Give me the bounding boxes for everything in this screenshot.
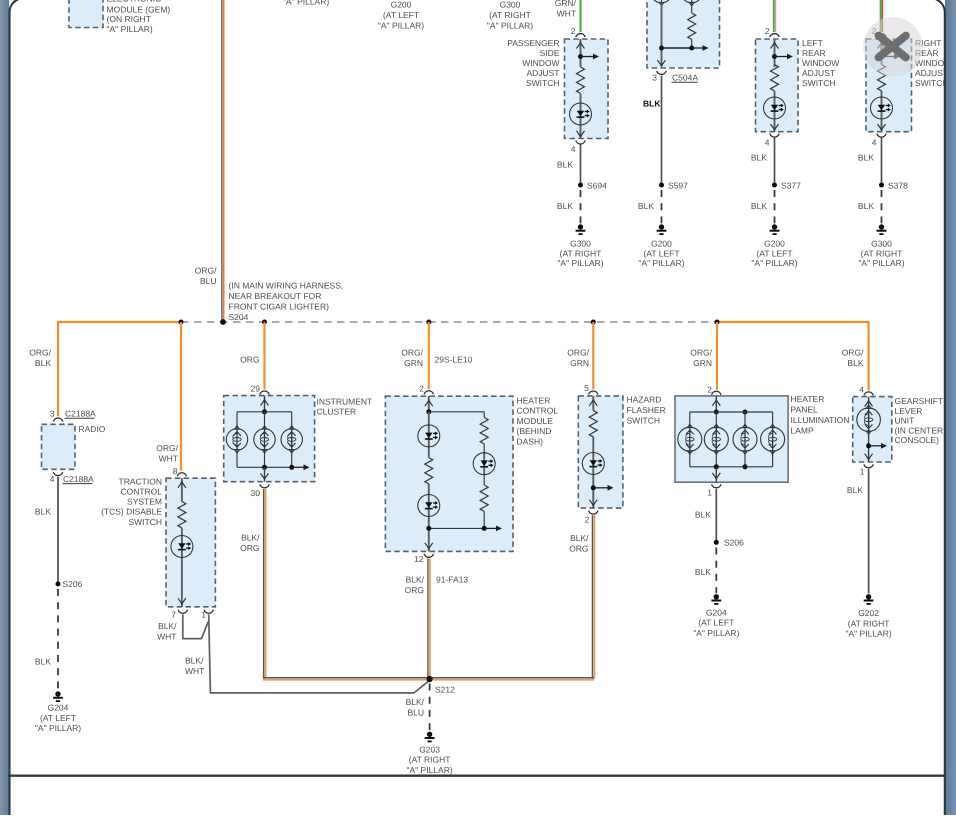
svg-text:91-FA13: 91-FA13 xyxy=(436,575,468,585)
resistor in heater module left xyxy=(425,458,433,484)
svg-text:WINDOW: WINDOW xyxy=(802,58,839,68)
svg-text:CONTROL: CONTROL xyxy=(517,406,559,416)
connector arc TCS pin 8 xyxy=(177,473,186,477)
cluster internal wire bottom xyxy=(264,467,266,481)
connector arc panel lamp pin 1 xyxy=(712,484,721,488)
svg-text:ORG: ORG xyxy=(240,543,259,553)
svg-text:(AT RIGHT: (AT RIGHT xyxy=(848,618,890,628)
panel lamp arrow down xyxy=(712,473,720,479)
svg-text:BLK: BLK xyxy=(858,152,874,162)
wire BLK dashed to ground xyxy=(57,589,59,691)
svg-text:TRACTION: TRACTION xyxy=(119,476,162,486)
connector arc heater pin 12 xyxy=(424,554,433,558)
panel lamp branch wires xyxy=(690,412,773,467)
connector arc TCS pin 1 xyxy=(204,610,213,614)
svg-text:ORG/: ORG/ xyxy=(156,443,178,453)
svg-text:DASH): DASH) xyxy=(517,437,544,447)
svg-text:CLUSTER: CLUSTER xyxy=(317,406,357,416)
wire BLK/WHT from TCS pin 1 to S212 xyxy=(209,614,430,693)
wire BLK/ORG from hazard to S212 xyxy=(592,515,594,678)
LED in hazard switch xyxy=(582,453,604,475)
svg-text:ORG/: ORG/ xyxy=(401,347,423,357)
module branch wire xyxy=(691,2,693,13)
svg-text:30: 30 xyxy=(251,488,261,498)
TCS internal wire xyxy=(181,478,183,607)
svg-text:S377: S377 xyxy=(781,180,801,190)
passenger switch internal wire xyxy=(580,39,582,139)
gearshift lever unit box xyxy=(853,397,892,462)
connector arc radio pin 3 xyxy=(53,418,62,422)
hazard internal wire xyxy=(592,396,594,508)
right rear switch node xyxy=(879,54,884,59)
svg-text:4: 4 xyxy=(50,474,55,484)
connector arc cluster pin 30 xyxy=(260,484,269,488)
svg-text:WHT: WHT xyxy=(159,453,178,463)
svg-text:"A" PILLAR): "A" PILLAR) xyxy=(35,723,81,733)
svg-text:"A" PILLAR): "A" PILLAR) xyxy=(283,0,329,7)
svg-text:ORG/: ORG/ xyxy=(195,265,217,275)
svg-text:MODULE: MODULE xyxy=(517,416,554,426)
ground G300 xyxy=(576,224,586,234)
svg-text:G300: G300 xyxy=(500,0,521,10)
svg-text:ORG: ORG xyxy=(240,355,259,365)
panel lamp node top 2 xyxy=(743,410,748,415)
switch module box (cut off at top) xyxy=(647,0,720,68)
connector arc hazard pin 2 xyxy=(589,511,598,515)
illumination bulb 4 in panel xyxy=(761,424,785,454)
svg-text:LAMP: LAMP xyxy=(791,425,814,435)
left rear window adjust switch box xyxy=(756,39,799,132)
connector arc radio pin 4 xyxy=(53,472,62,476)
svg-text:ORG/: ORG/ xyxy=(690,347,712,357)
wire ORG/GRN down to heater panel lamp xyxy=(716,322,718,390)
wire BLK dashed to ground xyxy=(580,190,582,224)
svg-text:3: 3 xyxy=(50,409,55,419)
svg-text:BLK/: BLK/ xyxy=(570,533,589,543)
svg-text:(TCS) DISABLE: (TCS) DISABLE xyxy=(101,507,162,517)
wire ORG right bus segment to gearshift xyxy=(717,322,869,390)
svg-text:C2188A: C2188A xyxy=(63,474,94,484)
svg-text:PANEL: PANEL xyxy=(791,405,819,415)
panel lamp node bottom xyxy=(714,464,719,469)
wire BLK dashed to ground xyxy=(715,548,717,594)
resistor in passenger switch xyxy=(577,67,585,93)
svg-text:ELECTRONIC: ELECTRONIC xyxy=(107,0,162,4)
hazard branch arrow xyxy=(593,485,613,491)
svg-text:WHT: WHT xyxy=(157,631,176,641)
svg-text:BLK: BLK xyxy=(858,201,874,211)
svg-text:BLK/: BLK/ xyxy=(185,656,204,666)
wire BLK/ORG horizontal to S212 xyxy=(263,678,430,680)
page separator line xyxy=(8,775,946,777)
wire ORG/GRN down to hazard flasher switch xyxy=(592,322,594,389)
svg-text:BLK: BLK xyxy=(695,510,711,520)
svg-text:"A" PILLAR): "A" PILLAR) xyxy=(858,258,904,268)
svg-text:G200: G200 xyxy=(651,238,672,248)
generic electronic module (GEM) box xyxy=(69,0,103,28)
svg-text:(AT RIGHT: (AT RIGHT xyxy=(861,248,903,258)
svg-text:29S-LE10: 29S-LE10 xyxy=(435,355,473,365)
panel lamp node bottom 2 xyxy=(743,464,748,469)
svg-text:G300: G300 xyxy=(871,238,892,248)
cluster arrow down xyxy=(261,473,269,479)
connector arc passenger switch pin 2 xyxy=(576,34,585,38)
instrument cluster box xyxy=(224,396,315,482)
TCS disable switch box xyxy=(166,478,215,607)
heater node bottom left xyxy=(426,526,431,531)
svg-text:S212: S212 xyxy=(435,685,455,695)
module branch wire lower xyxy=(691,39,693,48)
svg-text:G300: G300 xyxy=(570,238,591,248)
svg-text:WHT: WHT xyxy=(557,9,576,19)
svg-text:"A" PILLAR): "A" PILLAR) xyxy=(406,765,452,775)
svg-text:ADJUST: ADJUST xyxy=(915,68,948,78)
svg-text:SYSTEM: SYSTEM xyxy=(127,497,162,507)
wire BLK dashed to ground xyxy=(881,190,883,224)
illumination bulb 3 in panel xyxy=(733,424,757,454)
svg-text:UNIT: UNIT xyxy=(895,416,915,426)
svg-text:(AT LEFT: (AT LEFT xyxy=(643,248,679,258)
svg-text:(AT RIGHT: (AT RIGHT xyxy=(409,755,451,765)
svg-text:BLK: BLK xyxy=(847,358,863,368)
svg-text:(IN MAIN WIRING HARNESS,: (IN MAIN WIRING HARNESS, xyxy=(229,281,344,291)
svg-text:4: 4 xyxy=(859,385,864,395)
wire BLK/ORG from heater pin 12 to S212 xyxy=(428,559,430,680)
hazard node xyxy=(591,485,596,490)
svg-text:CONSOLE): CONSOLE) xyxy=(895,435,940,445)
svg-text:2: 2 xyxy=(585,514,590,524)
connector arc heater pin 2 xyxy=(424,391,433,395)
left rear switch node xyxy=(772,54,777,59)
svg-text:C2188A: C2188A xyxy=(65,409,96,419)
svg-text:ADJUST: ADJUST xyxy=(802,68,835,78)
svg-text:G200: G200 xyxy=(391,0,412,10)
connector arc passenger switch pin 4 xyxy=(576,141,585,145)
left rear switch internal wire xyxy=(774,39,776,132)
svg-text:MODULE (GEM): MODULE (GEM) xyxy=(107,4,171,14)
ground G203 xyxy=(425,732,435,742)
connector arc left rear switch pin 2 xyxy=(770,34,779,38)
right rear switch wiper arrow up xyxy=(878,43,886,49)
wire BLK dashed to ground xyxy=(774,190,776,224)
ground G200 xyxy=(770,224,780,234)
svg-text:(BEHIND: (BEHIND xyxy=(517,426,552,436)
svg-text:"A" PILLAR): "A" PILLAR) xyxy=(638,258,684,268)
svg-text:BLK/: BLK/ xyxy=(406,697,425,707)
svg-text:ORG/: ORG/ xyxy=(842,347,864,357)
svg-text:BLK/: BLK/ xyxy=(406,575,425,585)
svg-text:12: 12 xyxy=(414,554,424,564)
connector arc panel lamp pin 2 xyxy=(712,391,721,395)
svg-text:ORG: ORG xyxy=(569,543,588,553)
svg-text:(AT RIGHT: (AT RIGHT xyxy=(560,248,602,258)
svg-text:3: 3 xyxy=(652,73,657,83)
svg-text:HAZARD: HAZARD xyxy=(627,395,662,405)
left rear switch branch arrow xyxy=(775,54,794,60)
junction at panel lamp drop xyxy=(715,320,720,325)
gearshift arrow up xyxy=(865,401,873,407)
wire BLK/ORG horizontal hazard to S212 xyxy=(430,678,595,680)
svg-text:BLK: BLK xyxy=(638,201,654,211)
wire BLK dashed to ground xyxy=(661,190,663,224)
svg-text:HEATER: HEATER xyxy=(517,395,551,405)
svg-text:7: 7 xyxy=(171,609,176,619)
svg-text:PASSENGER: PASSENGER xyxy=(507,38,559,48)
connector arc gearshift pin 1 xyxy=(864,464,873,468)
gearshift arrow down xyxy=(865,454,873,460)
svg-text:5: 5 xyxy=(584,383,589,393)
wire ORG/BLK down to radio xyxy=(57,322,59,416)
svg-text:HEATER: HEATER xyxy=(791,394,825,404)
resistor in right rear switch xyxy=(878,65,886,91)
ground G204 xyxy=(53,691,63,701)
gearshift internal wire xyxy=(868,397,870,462)
connector arc right rear switch pin 2 xyxy=(877,34,886,38)
resistor in hazard switch xyxy=(589,411,597,437)
svg-text:GEARSHIFT: GEARSHIFT xyxy=(895,396,944,406)
wire BLK/BLU dashed to ground G203 xyxy=(429,684,431,731)
module bottom junction wire xyxy=(662,47,692,49)
svg-text:2: 2 xyxy=(765,26,770,36)
svg-text:BLK: BLK xyxy=(35,358,51,368)
module node right xyxy=(689,46,694,51)
wire BLK from C504A xyxy=(661,76,663,185)
svg-text:BLK: BLK xyxy=(35,507,51,517)
LED in TCS switch xyxy=(171,536,193,558)
svg-text:(ON RIGHT: (ON RIGHT xyxy=(107,14,151,24)
svg-text:SIDE: SIDE xyxy=(540,48,560,58)
svg-text:LEVER: LEVER xyxy=(895,406,923,416)
svg-text:NEAR BREAKOUT FOR: NEAR BREAKOUT FOR xyxy=(229,291,322,301)
svg-text:"A" PILLAR): "A" PILLAR) xyxy=(487,21,533,31)
wire BLK from passenger switch xyxy=(580,144,582,185)
connector arc C504A pin 3 xyxy=(657,71,666,75)
heater left branch wire xyxy=(428,412,430,552)
wire GRN/WHT to passenger switch pin 2 xyxy=(580,0,582,32)
cluster top rail xyxy=(237,411,292,413)
cluster internal wire top xyxy=(264,396,266,412)
panel lamp internal wire top xyxy=(715,396,717,412)
svg-text:BLK: BLK xyxy=(557,160,573,170)
svg-text:GRN: GRN xyxy=(570,358,589,368)
svg-text:RADIO: RADIO xyxy=(79,424,106,434)
module internal wire xyxy=(661,2,663,66)
svg-text:LEFT: LEFT xyxy=(802,38,823,48)
panel lamp internal wire bottom xyxy=(715,467,717,482)
passenger side window adjust switch box xyxy=(565,39,609,139)
svg-text:ADJUST: ADJUST xyxy=(526,68,559,78)
right rear window adjust switch box xyxy=(866,39,912,132)
svg-text:G202: G202 xyxy=(858,608,879,618)
illumination bulb 2 in panel xyxy=(704,424,728,454)
left window strip xyxy=(0,0,9,815)
ground G202 xyxy=(864,594,874,604)
TCS arrow up xyxy=(178,482,186,488)
svg-text:ORG/: ORG/ xyxy=(29,347,51,357)
bulb in module (cut) xyxy=(651,0,673,6)
wire BLK from right rear switch xyxy=(881,138,883,186)
gearshift branch arrow xyxy=(869,443,887,449)
illumination bulb in gearshift xyxy=(857,405,881,435)
heater node bottom right xyxy=(482,526,487,531)
svg-text:WHT: WHT xyxy=(185,666,204,676)
junction at TCS drop xyxy=(179,320,184,325)
svg-text:BLU: BLU xyxy=(407,708,424,718)
splice S597 xyxy=(659,183,664,188)
heater node top xyxy=(426,409,431,414)
splice S694 xyxy=(578,183,583,188)
svg-text:SWITCH: SWITCH xyxy=(526,78,560,88)
wire BLK from panel lamp xyxy=(715,489,717,542)
cluster node bottom center xyxy=(262,465,267,470)
svg-text:S206: S206 xyxy=(63,579,83,589)
svg-text:BLK: BLK xyxy=(751,201,767,211)
svg-text:(AT LEFT: (AT LEFT xyxy=(40,713,76,723)
splice S378 xyxy=(879,183,884,188)
connector arc right rear switch pin 4 xyxy=(877,134,886,138)
LED 1 in heater module xyxy=(418,425,440,447)
LED in passenger switch xyxy=(570,103,592,125)
cluster bottom rail xyxy=(237,466,292,468)
svg-text:(AT LEFT: (AT LEFT xyxy=(698,618,734,628)
connector arc TCS pin 7 xyxy=(178,610,187,614)
splice S212 xyxy=(427,676,433,682)
svg-text:BLK: BLK xyxy=(643,99,661,109)
svg-text:SWITCH: SWITCH xyxy=(627,415,661,425)
svg-text:C504A: C504A xyxy=(672,73,698,83)
LED in left rear switch xyxy=(764,97,786,119)
wire BLK from radio xyxy=(57,477,59,584)
svg-text:"A" PILLAR): "A" PILLAR) xyxy=(693,628,739,638)
wire GRN/RED to right rear switch pin 2 xyxy=(881,0,883,32)
ground G300 xyxy=(877,224,887,234)
wire BLK from gearshift to ground xyxy=(868,469,870,594)
wire ORG/WHT down to TCS switch xyxy=(180,322,182,471)
wire BLK/ORG from cluster to S212 xyxy=(264,489,266,679)
svg-text:"A" PILLAR): "A" PILLAR) xyxy=(107,24,153,34)
svg-text:ORG: ORG xyxy=(405,585,424,595)
svg-text:INSTRUMENT: INSTRUMENT xyxy=(317,396,373,406)
svg-text:GRN: GRN xyxy=(693,358,712,368)
panel lamp bottom rail xyxy=(690,466,773,468)
left rear switch wiper arrow up xyxy=(771,43,779,49)
ground G204 panel xyxy=(711,594,721,604)
passenger switch branch arrow xyxy=(581,54,600,60)
panel lamp arrow up xyxy=(712,400,720,406)
svg-text:SWITCH: SWITCH xyxy=(915,78,949,88)
right rear switch arrow down xyxy=(878,124,886,130)
svg-text:G203: G203 xyxy=(419,744,440,754)
svg-text:BLK: BLK xyxy=(35,656,51,666)
splice S206 panel xyxy=(714,540,719,545)
splice S204 xyxy=(220,319,226,325)
svg-text:1: 1 xyxy=(707,487,712,497)
cluster node bottom right xyxy=(289,465,294,470)
svg-text:S597: S597 xyxy=(668,180,688,190)
panel lamp top rail xyxy=(690,411,773,413)
svg-text:2: 2 xyxy=(419,383,424,393)
resistor in module xyxy=(688,13,696,39)
svg-text:4: 4 xyxy=(765,137,770,147)
TCS arrow down xyxy=(178,598,186,604)
LED 2 in heater module xyxy=(418,495,440,517)
heater arrow down xyxy=(425,543,433,549)
splice S377 xyxy=(772,183,777,188)
svg-text:BLK/: BLK/ xyxy=(158,621,177,631)
resistor in heater module right bottom xyxy=(480,485,488,511)
LED in right rear switch xyxy=(871,97,893,119)
svg-text:G200: G200 xyxy=(764,238,785,248)
module node left xyxy=(659,46,664,51)
resistor in left rear switch xyxy=(771,65,779,91)
illumination bulb 2 in cluster xyxy=(254,426,275,453)
svg-text:CONTROL: CONTROL xyxy=(120,487,162,497)
wire BLK from left rear switch xyxy=(774,138,776,186)
svg-text:BLK: BLK xyxy=(847,485,863,495)
svg-text:"A" PILLAR): "A" PILLAR) xyxy=(378,21,424,31)
cluster node top xyxy=(262,409,267,414)
svg-text:ORG/: ORG/ xyxy=(567,347,589,357)
svg-text:4: 4 xyxy=(872,137,877,147)
hazard flasher switch box xyxy=(578,396,623,508)
connector arc hazard pin 5 xyxy=(589,391,598,395)
cluster lamp branch wires xyxy=(237,412,292,468)
left rear switch arrow down xyxy=(771,124,779,130)
splice S206 xyxy=(56,582,61,587)
svg-text:"A" PILLAR): "A" PILLAR) xyxy=(845,629,891,639)
svg-text:S204: S204 xyxy=(229,312,249,322)
passenger switch arrow down xyxy=(577,131,585,137)
wire ORG/GRN down to heater control module xyxy=(428,322,430,389)
svg-text:BLK/: BLK/ xyxy=(241,533,260,543)
svg-text:SWITCH: SWITCH xyxy=(128,517,162,527)
svg-text:S378: S378 xyxy=(888,180,908,190)
hazard arrow down xyxy=(589,500,597,506)
junction at cluster drop xyxy=(262,320,267,325)
svg-text:2: 2 xyxy=(571,26,576,36)
svg-text:SWITCH: SWITCH xyxy=(802,78,836,88)
svg-text:BLK: BLK xyxy=(751,152,767,162)
illumination bulb 1 in cluster xyxy=(226,426,247,453)
svg-text:(AT LEFT: (AT LEFT xyxy=(756,248,792,258)
wire GRN/PNK to left rear switch pin 2 xyxy=(774,0,776,32)
svg-text:G204: G204 xyxy=(706,608,727,618)
heater arrow up xyxy=(425,400,433,406)
bulb 2 in module (cut) xyxy=(681,0,703,6)
illumination bulb 3 in cluster xyxy=(281,426,302,453)
illumination bulb 1 in panel xyxy=(678,424,702,454)
svg-text:2: 2 xyxy=(707,385,712,395)
connector arc left rear switch pin 4 xyxy=(770,134,779,138)
right rear switch branch arrow xyxy=(882,54,901,60)
heater panel illumination lamp box xyxy=(675,396,788,482)
connector arc gearshift pin 4 xyxy=(864,392,873,396)
svg-text:ILLUMINATION: ILLUMINATION xyxy=(791,415,850,425)
svg-text:FRONT CIGAR LIGHTER): FRONT CIGAR LIGHTER) xyxy=(229,302,330,312)
svg-text:29: 29 xyxy=(251,383,261,393)
junction at hazard drop xyxy=(591,320,596,325)
svg-text:4: 4 xyxy=(571,144,576,154)
hazard arrow up xyxy=(589,400,597,406)
passenger switch node xyxy=(578,54,583,59)
cluster branch arrow xyxy=(292,464,310,470)
heater control module box xyxy=(385,396,513,551)
gearshift node xyxy=(866,443,871,448)
close button xyxy=(863,17,923,77)
heater bottom rail xyxy=(429,527,484,529)
svg-text:REAR: REAR xyxy=(802,48,826,58)
bus dashed wire xyxy=(181,321,717,323)
